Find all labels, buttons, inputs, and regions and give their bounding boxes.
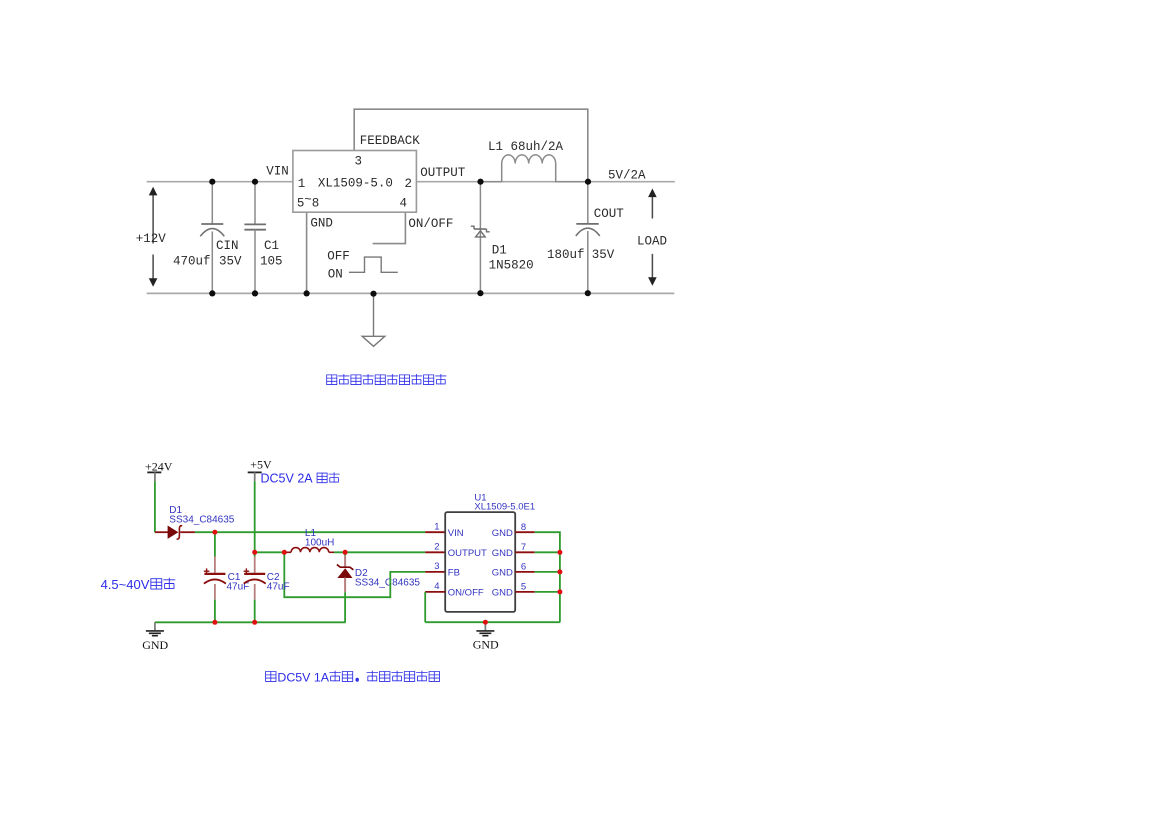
svg-text:4: 4 bbox=[434, 581, 439, 592]
svg-text:35V: 35V bbox=[219, 255, 242, 269]
ground GND (left) bbox=[142, 622, 168, 652]
junction dots (bottom circuit) bbox=[212, 530, 562, 625]
wire top rail right (OUTPUT to 5V/2A) bbox=[416, 181, 674, 183]
wire FB net bbox=[284, 552, 425, 597]
wire +24V stem bbox=[154, 481, 156, 532]
+12V source arrow bbox=[136, 187, 167, 287]
svg-text:GND: GND bbox=[492, 528, 513, 539]
capacitor C1 bbox=[244, 182, 266, 294]
diode D2 SS34 bbox=[337, 552, 354, 622]
svg-text:5V/2A: 5V/2A bbox=[608, 169, 646, 183]
wire GND pin bbox=[306, 212, 308, 293]
diode D1 (1N5820) bbox=[471, 182, 490, 294]
svg-text:100uH: 100uH bbox=[305, 538, 334, 549]
LOAD arrow bbox=[637, 189, 667, 286]
wire bottom right ground rail bbox=[425, 621, 560, 623]
svg-text:OUTPUT: OUTPUT bbox=[448, 548, 487, 559]
svg-text:5: 5 bbox=[521, 582, 526, 593]
svg-text:LOAD: LOAD bbox=[637, 234, 667, 248]
wire ON/OFF pin bbox=[374, 212, 406, 243]
svg-text:3: 3 bbox=[355, 154, 363, 168]
ground GND (right) bbox=[473, 622, 499, 651]
svg-text:OFF: OFF bbox=[327, 250, 350, 264]
svg-text:47uF: 47uF bbox=[227, 582, 250, 593]
IC U1 box bbox=[445, 512, 515, 612]
svg-text:1: 1 bbox=[298, 177, 306, 191]
wire left ground rail bbox=[155, 621, 346, 623]
caption 按DC5V 1A输出，电路做了简化 bbox=[266, 670, 440, 684]
svg-text:C1: C1 bbox=[264, 239, 279, 253]
svg-text:ON: ON bbox=[328, 268, 343, 282]
svg-text:GND: GND bbox=[310, 217, 333, 231]
svg-text:ON/OFF: ON/OFF bbox=[408, 217, 453, 231]
svg-text:GND: GND bbox=[492, 588, 513, 599]
svg-text:XL1509-5.0E1: XL1509-5.0E1 bbox=[474, 502, 535, 513]
power flag +5V bbox=[248, 458, 272, 482]
caption 4.5~40V输入 bbox=[101, 577, 176, 592]
svg-text:180uf: 180uf bbox=[547, 248, 585, 262]
diode D1 SS34 bbox=[155, 526, 195, 539]
wire ON/OFF to ground bbox=[424, 592, 426, 622]
right GND pin stubs bbox=[515, 532, 535, 592]
svg-text:OUTPUT: OUTPUT bbox=[420, 166, 466, 180]
svg-text:COUT: COUT bbox=[594, 207, 625, 221]
svg-text:8: 8 bbox=[521, 522, 526, 533]
on/off waveform bbox=[349, 257, 398, 272]
svg-text:VIN: VIN bbox=[448, 528, 464, 539]
ground symbol (top circuit) bbox=[362, 294, 385, 346]
svg-text:GND: GND bbox=[492, 548, 513, 559]
svg-text:2: 2 bbox=[434, 542, 439, 553]
wire +5V stem bbox=[254, 481, 256, 552]
power flag +24V bbox=[145, 459, 173, 481]
wire bottom rail bbox=[148, 292, 674, 294]
svg-text:FEEDBACK: FEEDBACK bbox=[360, 134, 421, 148]
svg-text:7: 7 bbox=[521, 542, 526, 553]
svg-text:6: 6 bbox=[521, 562, 526, 573]
svg-text:2: 2 bbox=[405, 177, 413, 191]
svg-text:GND: GND bbox=[142, 638, 168, 652]
svg-text:GND: GND bbox=[473, 638, 499, 652]
pin 1 stub bbox=[425, 531, 445, 533]
svg-text:SS34_C84635: SS34_C84635 bbox=[169, 514, 234, 525]
svg-text:105: 105 bbox=[260, 255, 283, 269]
svg-text:DC5V 2A: DC5V 2A bbox=[261, 471, 314, 485]
svg-text:470uf: 470uf bbox=[173, 255, 211, 269]
IC XL1509-5.0 box bbox=[293, 151, 417, 213]
svg-text:~: ~ bbox=[304, 193, 312, 207]
caption DC5V 2A 输出 bbox=[261, 471, 340, 485]
svg-text:4.5~40V: 4.5~40V bbox=[101, 577, 150, 592]
svg-text:8: 8 bbox=[312, 196, 320, 210]
svg-text:DC5V 1A: DC5V 1A bbox=[277, 670, 329, 684]
svg-text:1N5820: 1N5820 bbox=[489, 259, 534, 273]
capacitor COUT bbox=[576, 182, 600, 294]
wire VIN net bbox=[195, 531, 425, 533]
capacitor CIN bbox=[200, 182, 224, 294]
pin 2 stub bbox=[425, 551, 445, 553]
svg-text:VIN: VIN bbox=[266, 165, 289, 179]
wire top rail left (input to VIN) bbox=[148, 181, 293, 183]
wire feedback loop bbox=[354, 109, 588, 182]
pin 4 ON/OFF stub bbox=[425, 591, 445, 593]
svg-text:D1: D1 bbox=[492, 243, 507, 257]
svg-text:L1 68uh/2A: L1 68uh/2A bbox=[488, 140, 564, 154]
svg-text:1: 1 bbox=[434, 522, 439, 533]
inductor L1 (bottom) bbox=[286, 548, 334, 553]
pin 3 stub bbox=[425, 571, 445, 573]
svg-text:4: 4 bbox=[400, 196, 408, 210]
node dots (top circuit) bbox=[209, 179, 591, 297]
svg-text:GND: GND bbox=[492, 568, 513, 579]
svg-text:XL1509-5.0: XL1509-5.0 bbox=[318, 176, 393, 190]
capacitor C1 (bottom) bbox=[204, 532, 226, 622]
capacitor C2 (bottom) bbox=[244, 552, 266, 622]
svg-text:FB: FB bbox=[448, 568, 460, 579]
inductor L1 (top) bbox=[481, 155, 589, 182]
svg-text:35V: 35V bbox=[592, 248, 615, 262]
wire OUTPUT net (left of coil) bbox=[255, 551, 286, 553]
right GND wires bbox=[425, 532, 560, 622]
svg-text:47uF: 47uF bbox=[267, 582, 290, 593]
wire OUTPUT net (right of coil) bbox=[334, 551, 425, 553]
svg-text:3: 3 bbox=[434, 561, 439, 572]
svg-text:+5V: +5V bbox=[250, 458, 272, 472]
svg-text:SS34_C84635: SS34_C84635 bbox=[355, 577, 420, 588]
svg-text:+12V: +12V bbox=[136, 232, 167, 246]
svg-text:+24V: +24V bbox=[145, 459, 173, 473]
caption 官网资料给的参考电路 (blue) bbox=[327, 374, 447, 385]
svg-text:ON/OFF: ON/OFF bbox=[448, 588, 484, 599]
svg-text:CIN: CIN bbox=[216, 239, 239, 253]
